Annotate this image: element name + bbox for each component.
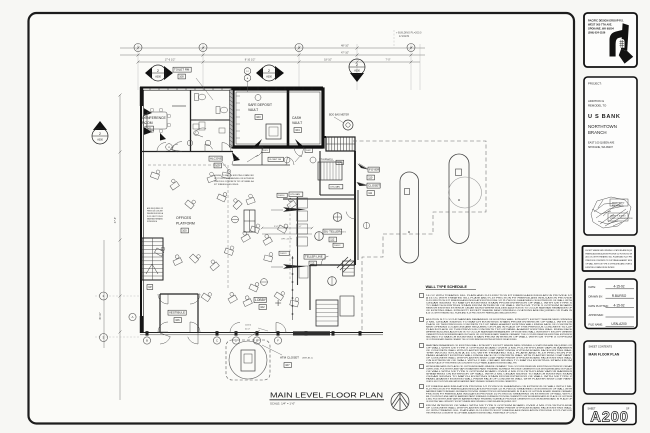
svg-text:110: 110 bbox=[368, 176, 373, 180]
svg-text:THIS PREVIOUS CONCRETE TILT-UP: THIS PREVIOUS CONCRETE TILT-UP PANEL AGA… bbox=[426, 412, 517, 415]
section marker top-middle bbox=[275, 66, 284, 80]
svg-text:106: 106 bbox=[175, 318, 180, 322]
svg-text:R.BURSO: R.BURSO bbox=[612, 294, 627, 298]
svg-text:ATM CLOSET: ATM CLOSET bbox=[280, 356, 299, 360]
svg-text:UTIL/JAN: UTIL/JAN bbox=[330, 186, 340, 189]
svg-text:CONFERENCE: CONFERENCE bbox=[142, 116, 166, 120]
room label: lobby bbox=[254, 297, 266, 302]
platform edge dashed bbox=[227, 165, 229, 290]
svg-text:1003 2: 1003 2 bbox=[334, 245, 341, 247]
title block: firm logo box bbox=[584, 13, 637, 67]
exterior wall: top bbox=[140, 87, 323, 89]
night depository hatched box bbox=[326, 137, 355, 151]
svg-text:TELLER LINE: TELLER LINE bbox=[305, 255, 323, 259]
svg-text:A 16 OC WITH TREATED SILL PLAT: A 16 OC WITH TREATED SILL PLATE AND R-19… bbox=[426, 312, 517, 315]
svg-text:OFFICES: OFFICES bbox=[176, 216, 192, 220]
svg-text:APPROVED:: APPROVED: bbox=[589, 313, 604, 317]
svg-text:CASH: CASH bbox=[292, 116, 302, 120]
svg-text:112: 112 bbox=[330, 238, 335, 242]
svg-text:VESTIBULE: VESTIBULE bbox=[169, 311, 185, 315]
svg-text:A300: A300 bbox=[155, 75, 161, 78]
svg-text:WALL TYPE SCHEDULE: WALL TYPE SCHEDULE bbox=[426, 285, 468, 289]
svg-text:(SEE A5.1): (SEE A5.1) bbox=[302, 357, 313, 360]
sheet number box A200 bbox=[583, 404, 636, 425]
toilet room partitions bbox=[196, 119, 215, 121]
svg-text:1003 1: 1003 1 bbox=[340, 231, 347, 233]
svg-text:TOILET RM: TOILET RM bbox=[174, 68, 190, 72]
svg-text:EXISTING STAIN FROM INTERI: EXISTING STAIN FROM INTERI bbox=[586, 266, 615, 269]
svg-text:CLOSET: CLOSET bbox=[368, 184, 380, 188]
door wedges left wall bbox=[144, 108, 152, 116]
svg-text:PREVIOUS CONCRETE TILT-UP PANE: PREVIOUS CONCRETE TILT-UP PANEL AG bbox=[214, 180, 254, 183]
drive-up island capsule 2 bbox=[449, 154, 469, 244]
svg-text:NORTHTOWN: NORTHTOWN bbox=[588, 124, 617, 129]
room label: foyer bbox=[368, 167, 379, 172]
svg-text:102: 102 bbox=[260, 305, 265, 309]
svg-text:107: 107 bbox=[285, 363, 290, 367]
svg-text:18'-10″: 18'-10″ bbox=[324, 59, 332, 62]
teller counter bbox=[297, 197, 299, 285]
toilet fixtures bbox=[195, 94, 199, 101]
svg-text:BDO BAG METER: BDO BAG METER bbox=[329, 114, 349, 117]
north compass bbox=[391, 393, 409, 411]
svg-text:U S BANK: U S BANK bbox=[588, 114, 621, 120]
svg-text:DU TELLER: DU TELLER bbox=[324, 230, 341, 234]
svg-text:SHEET CONTENTS: SHEET CONTENTS bbox=[589, 345, 613, 349]
svg-text:LOBBY: LOBBY bbox=[255, 298, 267, 302]
svg-text:108: 108 bbox=[179, 75, 184, 79]
svg-text:45'-10″: 45'-10″ bbox=[99, 312, 102, 320]
section marker left edge bbox=[93, 121, 107, 130]
svg-text:EXCEPT WHERE NEW OPENING LOCAT: EXCEPT WHERE NEW OPENING LOCATIONS ARE R… bbox=[586, 249, 633, 252]
wall end caps bbox=[140, 87, 143, 106]
svg-text:PLAN IN PLACE OF THIS PREVIOUS: PLAN IN PLACE OF THIS PREVIOUS CONCRETE … bbox=[426, 362, 517, 365]
grid bubbles top bbox=[134, 44, 142, 52]
sheet contents box bbox=[584, 341, 636, 394]
left dimension lines bbox=[119, 95, 121, 400]
dashed work line bbox=[289, 200, 291, 280]
svg-text:SCALE: 1/4″ = 1′-0″: SCALE: 1/4″ = 1′-0″ bbox=[270, 401, 295, 405]
svg-text:1/2 PLYWOOD SHEATHING ON EXTER: 1/2 PLYWOOD SHEATHING ON EXTERIOR bbox=[214, 177, 254, 180]
svg-text:PLATFORM: PLATFORM bbox=[176, 221, 195, 225]
svg-text:4-15-92: 4-15-92 bbox=[614, 285, 625, 289]
svg-text:104: 104 bbox=[295, 128, 300, 132]
svg-text:4-15-92: 4-15-92 bbox=[614, 303, 625, 307]
grid bubbles left bbox=[100, 292, 108, 300]
leader arrows lobby bbox=[283, 207, 306, 212]
svg-text:ADDITION &: ADDITION & bbox=[588, 99, 604, 103]
office desks bbox=[150, 168, 161, 179]
svg-text:ARCHITECT: ARCHITECT bbox=[612, 204, 624, 207]
partition walls upper-left bbox=[190, 90, 192, 152]
lobby dimension strings bbox=[262, 227, 312, 229]
toilet door arcs bbox=[195, 128, 207, 137]
room label: closet bbox=[367, 183, 380, 188]
dark storefront segment bbox=[293, 331, 330, 335]
extra tags vault area bbox=[262, 148, 270, 152]
plumbing chase wall bbox=[230, 90, 234, 147]
atm closet dashed enclosure bbox=[226, 340, 270, 380]
svg-text:F: F bbox=[277, 339, 279, 343]
exterior wall: bottom storefront bbox=[140, 332, 383, 334]
svg-text:SIDING TO MATCH EXISTING STAIN: SIDING TO MATCH EXISTING STAIN FRO bbox=[214, 174, 254, 177]
vault door leaf bbox=[253, 139, 262, 147]
svg-text:A200: A200 bbox=[590, 410, 629, 426]
svg-text:7'-0″: 7'-0″ bbox=[386, 59, 391, 62]
svg-text:OPT. 24 X7: OPT. 24 X7 bbox=[281, 239, 293, 241]
svg-text:37'-6″: 37'-6″ bbox=[114, 217, 117, 223]
date / drawn-by box bbox=[585, 279, 637, 329]
svg-text:UP: UP bbox=[148, 285, 152, 289]
section marker top wall bbox=[350, 73, 364, 82]
elevation marker bbox=[232, 216, 239, 223]
svg-text:DATE:: DATE: bbox=[589, 285, 597, 289]
section marker top-left bbox=[164, 66, 173, 80]
corridor closet row bbox=[233, 164, 290, 166]
svg-text:5′-0″: 5′-0″ bbox=[297, 226, 302, 228]
floor plus marker bbox=[275, 302, 281, 304]
svg-text:UTIL/JAN: UTIL/JAN bbox=[290, 193, 300, 196]
title block: project box bbox=[584, 77, 637, 235]
svg-text:(509) 624-1186: (509) 624-1186 bbox=[588, 31, 606, 35]
coupon booth bbox=[316, 300, 338, 326]
svg-text:DATE PLOTTED:: DATE PLOTTED: bbox=[589, 304, 609, 308]
svg-text:A: A bbox=[131, 315, 133, 319]
utility wall bbox=[283, 198, 355, 200]
top dimension lines bbox=[120, 47, 425, 49]
room label: toilet rm bbox=[173, 67, 191, 72]
stairwell left bbox=[142, 238, 163, 280]
svg-text:VAULT: VAULT bbox=[248, 108, 258, 112]
exterior wall: left bbox=[140, 88, 142, 333]
lobby check desk bbox=[244, 210, 255, 232]
svg-text:SPOKANE, WA 99207: SPOKANE, WA 99207 bbox=[588, 146, 614, 149]
svg-text:MAIN FLOOR PLAN: MAIN FLOOR PLAN bbox=[589, 353, 620, 357]
svg-text:OF EXISTING WALL INTEGRITY EXC: OF EXISTING WALL INTEGRITY EXCEPT WHERE … bbox=[426, 400, 517, 403]
architect stamp bbox=[591, 197, 631, 228]
svg-text:100: 100 bbox=[182, 229, 187, 233]
svg-text:48'-10″: 48'-10″ bbox=[341, 44, 349, 48]
svg-text:E: E bbox=[256, 339, 258, 343]
svg-text:CLOSET 140: CLOSET 140 bbox=[269, 159, 282, 161]
svg-text:113: 113 bbox=[310, 262, 315, 266]
door arcs bbox=[157, 143, 166, 152]
svg-text:A300: A300 bbox=[97, 138, 103, 141]
deposit chute bbox=[337, 257, 354, 272]
svg-text:47'-10″: 47'-10″ bbox=[341, 51, 349, 55]
car ellipse bbox=[449, 177, 482, 208]
border frame bbox=[29, 13, 575, 424]
svg-text:2: 2 bbox=[356, 63, 358, 67]
svg-text:105: 105 bbox=[215, 164, 220, 168]
svg-text:BRANCH: BRANCH bbox=[588, 130, 607, 135]
svg-text:STATE OF WASHINGTON: STATE OF WASHINGTON bbox=[610, 217, 633, 220]
svg-text:WHERE BUILDING A: WHERE BUILDING A bbox=[147, 212, 164, 215]
svg-text:WONDERBOA: WONDERBOA bbox=[147, 220, 157, 223]
svg-text:EAST 100 QUEEN AVE: EAST 100 QUEEN AVE bbox=[588, 142, 615, 145]
svg-text:103: 103 bbox=[256, 115, 261, 119]
teller wing walls bbox=[323, 136, 326, 138]
svg-text:PROJECT:: PROJECT: bbox=[588, 82, 602, 86]
svg-text:17'-6 1/2″: 17'-6 1/2″ bbox=[165, 59, 176, 62]
svg-text:REMODEL TO: REMODEL TO bbox=[588, 104, 607, 108]
lobby extra furniture bbox=[250, 222, 261, 233]
svg-text:2: 2 bbox=[268, 69, 270, 73]
svg-text:PACIFIC DESIGN GROUP P.S.: PACIFIC DESIGN GROUP P.S. bbox=[588, 19, 624, 23]
entry doors with arcs bbox=[158, 294, 168, 304]
teller extra tags bbox=[277, 193, 287, 197]
leader arrows upper bbox=[247, 155, 258, 162]
svg-text:1003 4: 1003 4 bbox=[245, 325, 252, 327]
room label: vestibule bbox=[168, 310, 186, 315]
alcove label bbox=[209, 156, 222, 161]
svg-text:DRAWN BY:: DRAWN BY: bbox=[589, 294, 604, 298]
svg-text:5′-0″: 5′-0″ bbox=[274, 226, 279, 228]
svg-text:ARE REQUIRED OR: ARE REQUIRED OR bbox=[147, 207, 164, 210]
vestibule walls bbox=[159, 294, 161, 332]
canopy dashed outline bbox=[353, 141, 486, 332]
svg-text:MAIN LEVEL FLOOR PLAN: MAIN LEVEL FLOOR PLAN bbox=[270, 391, 383, 400]
svg-text:42′-0″: 42′-0″ bbox=[245, 329, 250, 331]
queue rail bbox=[292, 256, 294, 320]
vault interior safe bbox=[266, 124, 281, 139]
svg-text:OF WALL WITH 5/8 TYPE X GYPSUM: OF WALL WITH 5/8 TYPE X GYPSUM BOARD OVE… bbox=[586, 263, 633, 266]
grid bubbles bottom bbox=[143, 337, 150, 344]
svg-text:MAINTAIN REMAIND: MAINTAIN REMAIND bbox=[147, 217, 164, 220]
svg-text:SPOKANE, WA 99204: SPOKANE, WA 99204 bbox=[588, 27, 614, 31]
svg-text:ALCOVE: ALCOVE bbox=[210, 157, 222, 161]
svg-text:PREVIOUS CONCRETE TILT-UP PANE: PREVIOUS CONCRETE TILT-UP PANEL AGAINST … bbox=[586, 259, 633, 262]
conference table and chairs bbox=[147, 112, 167, 129]
meter circles bbox=[333, 213, 342, 222]
firm logo glyph bbox=[610, 23, 634, 63]
svg-text:FIT FIBERGLASS INSUL: FIT FIBERGLASS INSUL bbox=[214, 183, 240, 186]
svg-text:VAULT: VAULT bbox=[292, 121, 302, 125]
svg-text:OF GYPSUM BOARD WHERE CERAMIC: OF GYPSUM BOARD WHERE CERAMIC TILE OCCUR… bbox=[426, 338, 517, 341]
svg-text:111: 111 bbox=[368, 191, 372, 195]
svg-text:2: 2 bbox=[99, 132, 101, 136]
svg-text:2: 2 bbox=[157, 69, 159, 73]
svg-text:B: B bbox=[146, 339, 148, 343]
svg-text:A300: A300 bbox=[266, 75, 272, 78]
svg-text:1003 3: 1003 3 bbox=[280, 253, 287, 255]
room label: du teller bbox=[323, 229, 342, 234]
svg-text:A 16 OC WITH TREATED SILL PLAT: A 16 OC WITH TREATED SILL PLATE AND R-19… bbox=[586, 256, 633, 259]
svg-text:8'-10 1/2″: 8'-10 1/2″ bbox=[245, 59, 256, 62]
door tag circles bbox=[244, 68, 251, 75]
room label: teller line bbox=[304, 254, 325, 259]
svg-text:& SIGNS: & SIGNS bbox=[399, 35, 409, 38]
vestibule outward arcs bbox=[160, 333, 170, 344]
svg-text:FILE NAME:: FILE NAME: bbox=[589, 323, 604, 327]
svg-text:WEST 505 7TH AVE.: WEST 505 7TH AVE. bbox=[588, 23, 612, 27]
svg-text:1003 4: 1003 4 bbox=[278, 195, 285, 197]
vault walls bbox=[233, 89, 323, 147]
svg-text:SAFE DEPOSIT: SAFE DEPOSIT bbox=[248, 103, 272, 107]
svg-text:OVER 4 MIL POLYETHYLENE VAPOR: OVER 4 MIL POLYETHYLENE VAPOR BARRIER PA… bbox=[426, 380, 517, 383]
disclaimer note box bbox=[583, 246, 636, 271]
svg-text:FOYER: FOYER bbox=[369, 168, 380, 172]
svg-text:STAIRWELL: STAIRWELL bbox=[319, 158, 334, 162]
svg-text:A300: A300 bbox=[354, 69, 360, 72]
drive-up island capsule 1 bbox=[400, 172, 419, 263]
svg-text:FIBERGLASS INSULATION PROVIDE: FIBERGLASS INSULATION PROVIDE 1/2 PLYWOO… bbox=[586, 252, 633, 255]
svg-text:ROOM: ROOM bbox=[142, 121, 153, 125]
svg-text:USN-A200: USN-A200 bbox=[611, 322, 626, 326]
top wall window ticks bbox=[149, 88, 151, 91]
